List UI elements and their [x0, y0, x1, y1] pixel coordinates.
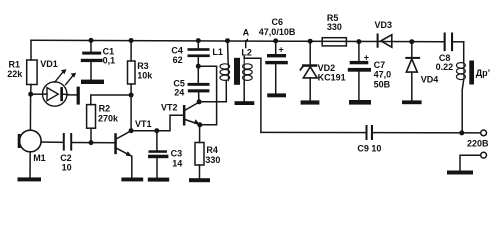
label VD4: [421, 74, 439, 84]
capacitor C4: [188, 41, 210, 83]
transistor VT2: [183, 102, 200, 125]
capacitor C2: [63, 133, 72, 151]
node R2 bottom junction: [89, 140, 94, 145]
capacitor C1: [81, 40, 103, 79]
svg-text:VD1: VD1: [40, 59, 58, 69]
choke Dr1: [456, 42, 465, 80]
svg-text:R2: R2: [99, 103, 111, 113]
label VD1: [40, 59, 58, 69]
electrode bar element: [77, 87, 80, 105]
node VT1 collector: [129, 128, 134, 133]
wire R2 bottom lead: [90, 128, 92, 142]
label C9 10: [357, 144, 381, 154]
svg-text:C2: C2: [60, 153, 72, 163]
terminal 220V lower: [481, 152, 487, 158]
node C7 rail junction: [356, 39, 361, 44]
ground VT1 emitter: [121, 178, 143, 182]
capacitor C6: [265, 41, 288, 94]
label M1: [33, 153, 46, 163]
node L1 rail junction: [225, 38, 230, 43]
ground VD4: [402, 100, 422, 104]
svg-text:270k: 270k: [98, 114, 119, 124]
ground VD2: [301, 100, 320, 104]
wire R4 bottom lead: [199, 165, 201, 178]
ground M1: [18, 177, 42, 181]
resistor R4: [195, 143, 204, 166]
LED VD1 arrows: [55, 69, 77, 84]
capacitor C3: [148, 131, 168, 178]
wire R3 top lead: [130, 41, 132, 62]
label C3 14: [171, 148, 183, 168]
svg-text:10: 10: [62, 163, 72, 173]
transformer core: [234, 58, 240, 85]
node A junction tick: [244, 38, 248, 41]
inductor L1: [220, 41, 230, 81]
svg-text:L1: L1: [212, 47, 223, 57]
choke core: [469, 61, 474, 85]
label C7 value: [374, 60, 392, 89]
ground C7: [349, 100, 371, 105]
node C4 C5 junction: [196, 64, 201, 69]
node C3 junction: [154, 128, 159, 133]
svg-text:C3: C3: [171, 148, 183, 158]
label VD2 KC191: [318, 63, 346, 83]
svg-text:24: 24: [174, 87, 184, 97]
wire C2 to VT1 base: [72, 142, 114, 144]
svg-text:C7: C7: [374, 60, 386, 70]
label A: [243, 27, 250, 37]
svg-text:VD2: VD2: [318, 63, 336, 73]
zener VD2: [300, 41, 317, 100]
svg-text:+: +: [279, 44, 284, 54]
label L1: [212, 47, 223, 57]
node VD4 rail junction: [409, 39, 414, 44]
wire node A to bottom rail: [244, 58, 261, 132]
svg-text:47,0: 47,0: [374, 70, 392, 80]
wire M1 top lead: [29, 94, 31, 130]
svg-text:M1: M1: [33, 153, 46, 163]
label C5 24: [173, 79, 185, 98]
capacitor C7: [348, 42, 371, 100]
label C1 0,1: [103, 47, 116, 66]
wire R4 top lead: [199, 125, 201, 143]
svg-text:KC191: KC191: [318, 72, 346, 82]
label R5 330: [327, 13, 342, 32]
terminal 220V upper: [481, 130, 487, 136]
inductor L2: [243, 41, 253, 101]
svg-text:14: 14: [172, 158, 182, 168]
svg-text:A: A: [243, 27, 250, 37]
svg-text:50В: 50В: [374, 79, 391, 89]
ground C6: [267, 93, 286, 97]
svg-text:62: 62: [173, 55, 183, 65]
label C6 value: [259, 17, 296, 37]
label C4 62: [171, 45, 183, 64]
wire R2 top corner: [91, 95, 131, 105]
wire top rail: [31, 40, 444, 42]
label R3 10k: [137, 61, 153, 80]
wire bottom rail: [261, 131, 481, 134]
resistor R2: [87, 105, 96, 129]
node bottom rail choke junction: [459, 130, 464, 135]
svg-text:10k: 10k: [137, 70, 153, 80]
svg-text:VT2: VT2: [161, 102, 178, 112]
label R4 330: [205, 145, 220, 165]
node VT2 collector: [197, 99, 202, 104]
ground C1: [81, 80, 104, 84]
label R1 22k: [7, 59, 23, 79]
label VT2: [161, 102, 178, 112]
wire lower terminal to ground: [460, 155, 481, 170]
svg-text:VT1: VT1: [135, 119, 152, 129]
diode VD3: [377, 34, 392, 48]
node C4 rail junction: [196, 38, 201, 43]
svg-text:+: +: [364, 53, 369, 63]
node R3 rail junction: [129, 38, 134, 43]
wire VT2 emitter feedback: [198, 66, 216, 125]
node VD2 rail junction: [308, 39, 313, 44]
svg-text:0.22: 0.22: [436, 62, 454, 72]
svg-text:Др’: Др’: [476, 68, 490, 78]
svg-text:R4: R4: [206, 145, 218, 155]
resistor R3: [128, 61, 136, 84]
svg-text:VD3: VD3: [375, 20, 393, 30]
svg-text:C6: C6: [272, 17, 284, 27]
label C7 plus: [364, 53, 369, 63]
capacitor C5: [188, 83, 210, 102]
svg-text:47,0/10В: 47,0/10В: [259, 27, 296, 37]
label 220V: [467, 138, 489, 148]
wire VT1 emitter lead: [131, 156, 133, 177]
wire choke to bottom rail: [462, 80, 464, 133]
svg-text:C9 10: C9 10: [357, 144, 381, 154]
capacitor C8: [444, 33, 464, 52]
svg-text:VD4: VD4: [421, 74, 439, 84]
node C6 rail junction: [273, 38, 278, 43]
LED VD1: [43, 82, 69, 106]
svg-text:330: 330: [327, 22, 342, 32]
svg-text:220В: 220В: [467, 138, 489, 148]
label C2 10: [60, 153, 72, 173]
label L2: [241, 48, 252, 58]
resistor R5: [322, 38, 346, 46]
microphone M1: [18, 130, 41, 152]
diode VD4: [405, 42, 420, 101]
node VT2 emitter: [197, 122, 202, 127]
label C6 plus: [279, 44, 284, 54]
wire left vertical R1 branch: [30, 40, 32, 94]
transistor VT1: [114, 131, 132, 157]
wire LED cathode: [68, 94, 77, 96]
label VD3: [375, 20, 393, 30]
label Dr: [476, 68, 490, 78]
ground R4: [189, 178, 210, 182]
wire LED anode: [31, 93, 47, 95]
wire M1 to C2: [41, 141, 63, 143]
node C1 rail junction: [89, 38, 94, 43]
wire VT2 collector to L1 bottom: [199, 81, 226, 102]
label VT1: [135, 119, 152, 129]
label R2 270k: [98, 103, 119, 123]
svg-text:L2: L2: [241, 48, 252, 58]
ground L2: [235, 101, 255, 105]
capacitor C9: [366, 125, 374, 140]
ground mains: [447, 171, 473, 175]
svg-text:22k: 22k: [7, 69, 23, 79]
wire VT1 collector to VT2 base: [131, 115, 183, 130]
svg-text:330: 330: [205, 155, 220, 165]
node junction R1/VD1/M1: [28, 92, 33, 97]
resistor R1: [27, 60, 37, 85]
label C8 0.22: [436, 53, 454, 72]
wire M1 bottom lead: [29, 152, 31, 178]
node R2/R3 junction: [129, 93, 134, 98]
ground C3: [148, 178, 169, 182]
svg-text:R1: R1: [9, 59, 21, 69]
svg-text:0,1: 0,1: [103, 55, 116, 65]
wire R3 bottom lead: [130, 84, 132, 131]
